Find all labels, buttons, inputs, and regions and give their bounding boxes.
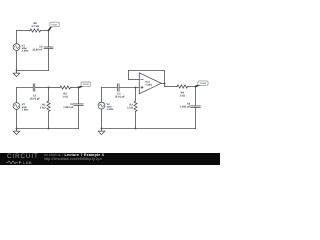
wire V3 bottom to rail	[16, 109, 18, 128]
svg-text:1 kΩ: 1 kΩ	[62, 95, 68, 98]
footer title text	[44, 154, 104, 158]
resistor R4	[177, 85, 188, 88]
capacitor C3	[118, 84, 120, 91]
resistor R2	[60, 86, 71, 89]
svg-text:1 kΩ: 1 kΩ	[40, 106, 46, 109]
wire V2 to C3	[102, 87, 117, 89]
resistor R1	[47, 101, 50, 111]
junction R3 bottom	[135, 128, 137, 130]
wire node to C6 top	[48, 31, 50, 47]
op-amp OA1	[139, 73, 161, 94]
wire feedback right vertical	[164, 71, 166, 87]
wire C1 bottom rail	[17, 70, 49, 72]
svg-text:15.91 µF: 15.91 µF	[30, 98, 41, 101]
wire C1 to node A	[35, 87, 48, 89]
label V3 sine 1kHz	[22, 103, 29, 111]
ground circuit2	[13, 129, 20, 135]
svg-text:1.591 µF: 1.591 µF	[63, 106, 74, 109]
node B junction	[135, 87, 137, 89]
wire V1 top to top rail	[16, 31, 18, 44]
label C2 value	[63, 103, 74, 109]
svg-text:LAB: LAB	[23, 160, 32, 165]
svg-text:Vout2: Vout2	[83, 83, 90, 86]
capacitor C6	[44, 47, 53, 49]
wire node B to R3	[135, 88, 137, 102]
wire C2 to bottom rail	[78, 105, 80, 128]
wire node Vout2 to C2	[78, 88, 80, 104]
node Vout3 junction	[195, 86, 197, 88]
svg-text:4.7 kΩ: 4.7 kΩ	[31, 25, 39, 28]
wire V2 bottom to rail	[101, 109, 103, 129]
wire V3 to C1	[17, 87, 33, 89]
resistor R6	[30, 29, 41, 32]
svg-text:Vout1: Vout1	[52, 23, 59, 26]
capacitor C1	[33, 84, 35, 91]
resistor R3	[134, 101, 137, 111]
svg-text:33.86 nF: 33.86 nF	[32, 48, 43, 51]
footer bar	[0, 153, 220, 165]
label V1 sine 1kHz	[22, 44, 29, 52]
voltage source V1	[13, 44, 20, 51]
wire R2 to node Vout2	[71, 87, 79, 89]
wire C3 to op-amp plus input	[120, 87, 140, 89]
wire output to R4	[165, 86, 178, 88]
flag Vout3	[196, 81, 209, 87]
label R4 value	[179, 91, 185, 97]
wire R6 to node Vout1	[41, 30, 49, 32]
wire op-amp output	[161, 83, 164, 85]
wire feedback to minus input	[129, 79, 140, 81]
wire node Vout3 to C4	[195, 87, 197, 106]
voltage source V2	[98, 102, 105, 109]
junction R1 bottom	[48, 128, 50, 130]
label C1 value	[30, 95, 41, 101]
wire C3 bottom rail	[102, 128, 196, 130]
wire node A to R2	[49, 87, 61, 89]
wire feedback left vertical	[128, 71, 130, 80]
wire V3 top to rail	[16, 88, 18, 103]
label R3 value	[127, 103, 133, 109]
svg-text:OA1: OA1	[145, 81, 150, 84]
CircuitLab logo	[7, 154, 39, 160]
label C6 value	[32, 45, 43, 51]
label R2 value	[62, 92, 68, 98]
wire V2 top to rail	[101, 88, 103, 103]
junction ground C3	[101, 128, 103, 130]
schematic canvas	[0, 0, 220, 170]
svg-text:1 kHz: 1 kHz	[22, 108, 29, 111]
svg-text:1 kΩ: 1 kΩ	[127, 106, 133, 109]
ground circuit1	[13, 71, 20, 77]
wire R3 to bottom rail	[135, 111, 137, 128]
capacitor C4	[191, 106, 201, 108]
junction ground C2	[16, 128, 18, 130]
flag Vout2	[79, 82, 91, 88]
label R1 value	[40, 103, 46, 109]
ground circuit3	[98, 129, 105, 135]
svg-text:Vout3: Vout3	[200, 82, 207, 85]
svg-text:1.591 µF: 1.591 µF	[180, 106, 191, 109]
svg-text:1 kHz: 1 kHz	[22, 50, 29, 53]
label C3 value	[114, 93, 125, 99]
node Vout2 junction	[78, 87, 80, 89]
wire node A to R1	[48, 88, 50, 102]
wire R4 to node Vout3	[188, 86, 196, 88]
label C4 value	[180, 103, 191, 109]
node A junction	[48, 87, 50, 89]
svg-text:TL081: TL081	[145, 84, 152, 87]
capacitor C2	[74, 104, 83, 106]
junction ground C1	[16, 70, 18, 72]
wire V1 bottom to rail	[16, 51, 18, 71]
voltage source V3	[13, 103, 20, 110]
junction output feedback	[164, 83, 166, 85]
svg-text:1 kHz: 1 kHz	[107, 108, 114, 111]
wire C1 top-left segment	[17, 30, 31, 32]
CircuitLab logo LAB line	[6, 160, 40, 165]
label R6 value	[31, 22, 39, 28]
wire C6 bottom to bottom rail	[48, 49, 50, 71]
footer url text	[44, 158, 102, 162]
wire R1 to bottom rail	[48, 111, 50, 128]
wire C2 bottom rail	[17, 128, 79, 130]
svg-text:15.91 µF: 15.91 µF	[114, 96, 125, 99]
label V2 sine 1kHz	[107, 103, 114, 111]
flag Vout1	[49, 22, 60, 30]
svg-text:1 kΩ: 1 kΩ	[179, 94, 185, 97]
node Vout1 junction	[48, 30, 50, 32]
wire feedback top	[129, 70, 165, 72]
wire C4 to bottom rail	[195, 107, 197, 128]
